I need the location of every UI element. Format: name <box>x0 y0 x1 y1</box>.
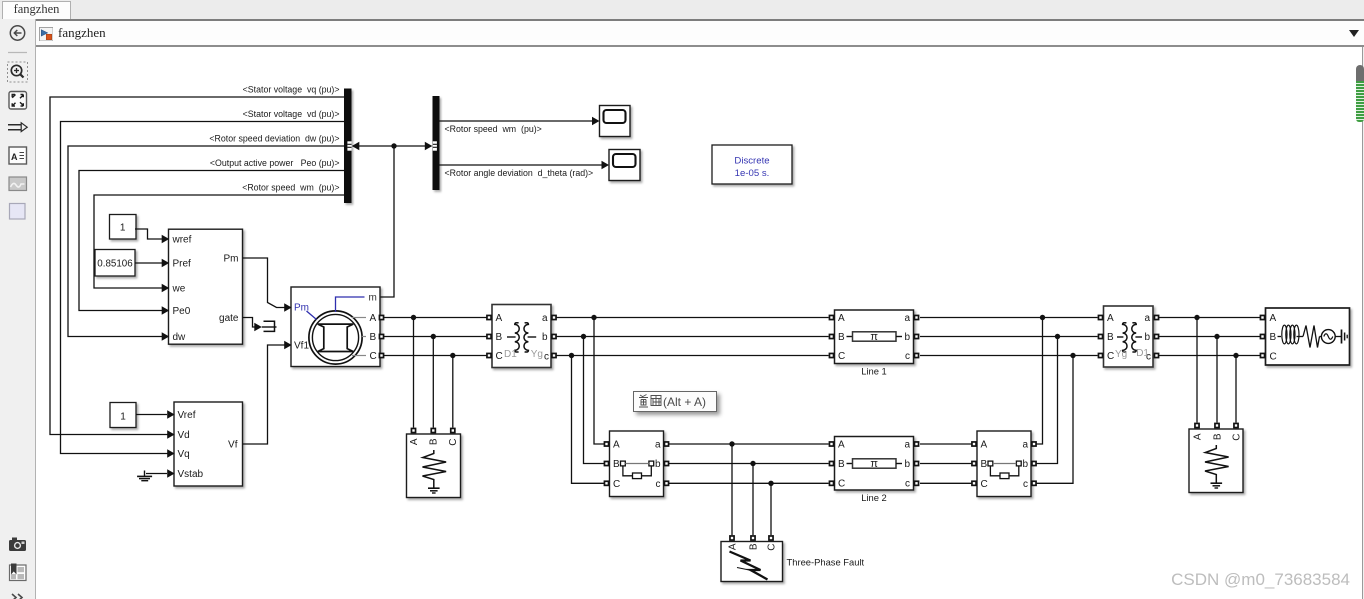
svg-text:Yg: Yg <box>531 349 543 360</box>
svg-text:Pref: Pref <box>173 258 192 269</box>
svg-text:a: a <box>1144 313 1150 324</box>
wire tap B down to Load1 <box>432 337 434 428</box>
svg-text:C: C <box>496 351 503 362</box>
svg-text:Three-Phase Fault: Three-Phase Fault <box>787 557 865 568</box>
svg-text:c: c <box>905 351 910 362</box>
wire wm to we <box>94 195 344 288</box>
scope Scope2 <box>609 150 640 181</box>
svg-text:Vf1: Vf1 <box>294 341 309 352</box>
svg-text:B: B <box>1107 332 1114 343</box>
svg-text:a: a <box>904 439 910 450</box>
wire tap c down to B1 C <box>572 356 605 484</box>
wire vq to Vd <box>50 97 344 435</box>
wire gate <box>243 318 262 332</box>
wire Line2 b to B2 B <box>920 463 972 465</box>
powergui Discrete 1e-05 s. <box>712 145 792 184</box>
wire machine A to T1 A <box>384 315 487 320</box>
constant 1 (wref) <box>110 215 137 240</box>
svg-text:B: B <box>748 543 759 550</box>
wire T2 a to source A <box>1159 315 1260 320</box>
svg-text:Vref: Vref <box>178 410 196 421</box>
signal label wm scope <box>445 124 542 134</box>
svg-text:B: B <box>370 332 377 343</box>
svg-text:C: C <box>448 439 459 446</box>
wire B1 a to Line2 A <box>669 441 829 446</box>
svg-text:<Rotor speed wm (pu)>: <Rotor speed wm (pu)> <box>445 124 542 134</box>
wire tap a down to Fault A <box>731 444 733 535</box>
svg-text:1e-05 s.: 1e-05 s. <box>735 168 770 179</box>
svg-text:<Rotor speed wm (pu)>: <Rotor speed wm (pu)> <box>242 183 339 193</box>
svg-text:B: B <box>613 459 620 470</box>
svg-text:0.85106: 0.85106 <box>97 259 133 270</box>
svg-text:Vd: Vd <box>178 430 190 441</box>
svg-text:<Rotor angle deviation d_thet: <Rotor angle deviation d_theta (rad)> <box>445 168 594 178</box>
svg-text:Vstab: Vstab <box>178 469 204 480</box>
wire T1 a to Line1 A <box>557 315 829 320</box>
wire Line2 a to B2 A <box>920 443 972 445</box>
wire tap a down to B1 A <box>594 318 604 445</box>
svg-text:C: C <box>613 479 620 490</box>
breadcrumb bar <box>36 19 1364 48</box>
subsystem governor STG <box>162 229 243 344</box>
svg-text:wref: wref <box>172 234 192 245</box>
svg-text:B: B <box>429 438 440 445</box>
svg-text:b: b <box>655 459 661 470</box>
wire tap b down to B1 B <box>584 337 605 464</box>
wire tap a down to Load2 <box>1196 318 1198 423</box>
svg-text:B: B <box>838 459 845 470</box>
wire tap b down to Fault B <box>752 464 754 536</box>
wire tap c down to Load2 <box>1235 356 1237 423</box>
breaker B2 (three-phase breaker) <box>971 431 1037 497</box>
wire T2 c to source C <box>1159 353 1260 358</box>
svg-text:<Rotor speed deviation dw (pu: <Rotor speed deviation dw (pu)> <box>209 134 339 144</box>
left toolbar <box>0 19 36 599</box>
constant 0.85106 (Pref) <box>95 250 135 277</box>
svg-text:a: a <box>904 313 910 324</box>
wire T2 b to source B <box>1159 334 1260 339</box>
constant 1 (Vref) <box>110 403 136 428</box>
scope Scope1 <box>600 106 631 137</box>
wire m to bus selectors <box>352 142 433 297</box>
svg-text:<Output active power Peo (pu: <Output active power Peo (pu)> <box>210 158 340 168</box>
machine SM (synchronous machine) <box>284 287 384 367</box>
wire 1 to Vref <box>136 414 167 416</box>
svg-text:A: A <box>496 313 503 324</box>
bus selector B2 <box>433 96 440 190</box>
wire wm to Scope1 <box>440 117 600 126</box>
svg-text:A: A <box>727 543 738 550</box>
wire dw to dw <box>68 146 344 337</box>
wire Pm <box>243 258 285 308</box>
tab bar <box>0 0 1364 19</box>
signal label vq <box>243 85 340 95</box>
svg-text:<Stator voltage vd (pu)>: <Stator voltage vd (pu)> <box>243 109 340 119</box>
svg-text:a: a <box>655 440 661 451</box>
svg-text:C: C <box>981 479 988 490</box>
wire tap C down to Load1 <box>452 356 454 428</box>
svg-text:b: b <box>904 332 910 343</box>
svg-text:1: 1 <box>120 223 126 234</box>
load Load1 (three-phase RLC load) <box>407 428 461 498</box>
svg-text:we: we <box>172 283 186 294</box>
svg-text:A: A <box>370 313 377 324</box>
svg-text:A: A <box>981 440 988 451</box>
svg-text:b: b <box>1022 459 1028 470</box>
bus selector B1 <box>344 89 352 204</box>
svg-text:D1: D1 <box>1136 348 1149 359</box>
svg-text:b: b <box>542 332 548 343</box>
svg-text:a: a <box>542 313 548 324</box>
wire Line2 c to B2 C <box>920 482 972 484</box>
signal label dw <box>209 134 339 144</box>
wire B2 c up to T2 C wire <box>1037 356 1074 484</box>
svg-text:C: C <box>766 544 777 551</box>
svg-text:C: C <box>1270 352 1277 363</box>
svg-text:Vf: Vf <box>228 440 238 451</box>
wire tap b down to Load2 <box>1216 337 1218 423</box>
svg-text:c: c <box>1023 479 1028 490</box>
svg-text:dw: dw <box>173 332 187 343</box>
signal label wm <box>242 183 339 193</box>
wire 0.85106 to Pref <box>135 262 162 264</box>
svg-text:B: B <box>838 332 845 343</box>
svg-text:C: C <box>370 351 377 362</box>
wire Line1 c to T2 C <box>920 353 1098 358</box>
green scroll indicator <box>1356 65 1364 81</box>
svg-text:A: A <box>409 438 420 445</box>
wire Line1 a to T2 A <box>920 315 1098 320</box>
svg-text:A: A <box>838 313 845 324</box>
transformer T2 (Yg-D1) <box>1098 306 1160 367</box>
wire Line1 b to T2 B <box>920 334 1098 339</box>
svg-text:1: 1 <box>120 412 126 423</box>
signal label Peo <box>210 158 340 168</box>
wire machine B to T1 B <box>384 334 487 339</box>
watermark <box>1120 570 1350 590</box>
svg-text:D1: D1 <box>504 349 517 360</box>
wire B2 b up to T2 B wire <box>1037 337 1058 464</box>
ground Vstab <box>137 471 167 481</box>
svg-text:π: π <box>870 331 878 343</box>
svg-text:C: C <box>1107 351 1114 362</box>
svg-text:A: A <box>613 440 620 451</box>
svg-text:<Stator voltage vq (pu)>: <Stator voltage vq (pu)> <box>243 85 340 95</box>
screenshot tooltip <box>633 391 717 412</box>
terminator gate <box>262 321 277 331</box>
transformer T1 (Yg-D1) <box>486 305 557 368</box>
svg-text:Pe0: Pe0 <box>173 306 191 317</box>
svg-text:Line 2: Line 2 <box>861 492 887 503</box>
wire B2 a up to T2 A wire <box>1037 318 1043 445</box>
svg-text:c: c <box>905 479 910 490</box>
wire T1 b to Line1 B <box>557 334 829 339</box>
load Load2 (three-phase RLC load) <box>1189 423 1243 493</box>
signal label vd <box>243 109 340 119</box>
wire machine C to T1 C <box>384 353 487 358</box>
svg-text:π: π <box>870 458 878 470</box>
svg-text:Line 1: Line 1 <box>861 366 887 377</box>
wire d_theta to Scope2 <box>440 161 610 170</box>
svg-text:B: B <box>981 459 988 470</box>
svg-text:b: b <box>904 459 910 470</box>
svg-text:A: A <box>1107 313 1114 324</box>
subsystem Excitation <box>167 402 242 486</box>
svg-text:b: b <box>1144 332 1150 343</box>
wire Vf to Vf1 <box>243 345 285 444</box>
fault Three-Phase Fault <box>721 535 865 581</box>
wire T1 c to Line1 C <box>557 353 829 358</box>
svg-text:A: A <box>1270 313 1277 324</box>
wire B1 c to Line2 C <box>669 481 829 486</box>
svg-text:B: B <box>1212 433 1223 440</box>
svg-text:B: B <box>1270 332 1277 343</box>
line Line2 (pi section) <box>829 437 920 504</box>
signal label d_theta <box>445 168 594 178</box>
svg-text:A: A <box>11 152 18 162</box>
svg-text:a: a <box>1022 440 1028 451</box>
wire 1 to wref <box>135 229 162 239</box>
svg-text:c: c <box>656 479 661 490</box>
svg-text:C: C <box>838 351 845 362</box>
wire vd to Vq <box>61 122 345 454</box>
wire B1 b to Line2 B <box>669 461 829 466</box>
svg-text:m: m <box>369 293 377 304</box>
svg-text:Pm: Pm <box>224 254 239 265</box>
source three-phase programmable voltage source <box>1260 308 1350 365</box>
svg-text:C: C <box>838 479 845 490</box>
svg-text:Discrete: Discrete <box>734 156 769 167</box>
svg-text:Yg: Yg <box>1115 349 1127 360</box>
svg-text:Vq: Vq <box>178 449 190 460</box>
wire tap c down to Fault C <box>770 483 772 535</box>
svg-text:A: A <box>1192 433 1203 440</box>
svg-text:c: c <box>544 352 549 363</box>
breaker B1 (three-phase breaker) <box>604 431 670 497</box>
wire tap A down to Load1 <box>413 318 415 428</box>
svg-text:C: C <box>1231 434 1242 441</box>
wire Peo to Pe0 <box>79 171 344 311</box>
svg-text:B: B <box>496 332 503 343</box>
svg-text:A: A <box>838 439 845 450</box>
svg-text:gate: gate <box>219 313 239 324</box>
line Line1 (pi section) <box>829 310 920 377</box>
